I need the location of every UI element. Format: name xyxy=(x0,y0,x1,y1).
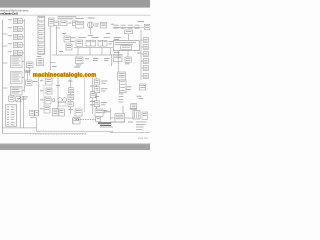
left row 2 wire xyxy=(22,28,24,30)
right row 3 wire xyxy=(141,53,143,55)
bus D tick 3 xyxy=(90,103,94,106)
gauge meter left xyxy=(58,98,62,102)
center drop wire xyxy=(55,26,57,55)
bus E side label 4 xyxy=(101,109,107,112)
left bottom frame wire xyxy=(2,127,36,129)
heater relay xyxy=(46,88,52,94)
svg-text:xxxx xxx: xxxx xxx xyxy=(138,137,149,140)
frame stub wire y46 xyxy=(2,45,7,47)
row2 relay A xyxy=(76,40,83,46)
right edge connector 6 xyxy=(143,74,148,79)
left row 5 label xyxy=(8,50,12,53)
left block 3 text 2 xyxy=(11,88,18,91)
bus B device 3 xyxy=(68,101,73,106)
center bus wire B xyxy=(70,78,72,115)
left row 4 label xyxy=(8,42,12,45)
right edge connector 2 xyxy=(143,45,148,50)
left row 5 wire xyxy=(22,52,24,54)
fuse row text 4a xyxy=(135,24,140,27)
right bus wire xyxy=(140,30,142,80)
CB label xyxy=(68,22,71,25)
blower device label xyxy=(40,98,43,101)
terminal drop wire xyxy=(27,73,29,81)
dotted separator xyxy=(30,133,86,136)
bus E side label 1b xyxy=(101,82,106,85)
bottom-right block xyxy=(115,114,125,122)
center bus wire C xyxy=(84,78,86,113)
gauge base box xyxy=(58,103,66,106)
pin row 1 name xyxy=(11,106,15,109)
bus E mid label xyxy=(95,95,99,98)
left block 2 text 5 xyxy=(11,80,20,83)
mid drop wire x110.4 xyxy=(109,48,111,55)
page bottom rule wire xyxy=(2,132,86,134)
junction strip divider 9 xyxy=(38,53,45,55)
mid lower label xyxy=(74,66,79,69)
header rule xyxy=(0,14,150,16)
relay box A xyxy=(64,36,70,42)
frame stub wire y88 xyxy=(2,87,7,89)
mid text C2 xyxy=(93,59,98,62)
enclosure corner device xyxy=(73,117,80,124)
relay box B label xyxy=(59,50,63,53)
note block row 2 xyxy=(136,123,145,126)
note block row 1 xyxy=(136,121,146,124)
battery ground wire xyxy=(89,28,91,34)
bus B device 2 xyxy=(68,94,74,99)
left row 2 label xyxy=(8,26,12,29)
left row 4 connector xyxy=(18,43,22,48)
battery label xyxy=(88,17,95,20)
junction strip cell text 6 xyxy=(39,37,43,40)
row2 relay B1 xyxy=(86,40,91,46)
junction strip divider 8 xyxy=(38,49,45,51)
mid-right wire xyxy=(127,51,129,57)
row2 side mark xyxy=(108,40,112,43)
row2 label B xyxy=(92,36,99,39)
top-right bus wire xyxy=(113,26,144,28)
bus E device 1 xyxy=(95,79,100,85)
mid-right label xyxy=(114,51,120,54)
starter label 2 xyxy=(95,25,98,28)
junction strip cell text 8 xyxy=(39,46,43,49)
bottom device D xyxy=(95,109,103,117)
junction strip divider 4 xyxy=(38,32,45,34)
bus E side label 3b xyxy=(101,103,106,106)
fuse row text 4b xyxy=(135,27,140,30)
fuse AM2 xyxy=(54,21,59,26)
relay box A label xyxy=(71,36,76,39)
bus D tick 1 xyxy=(90,85,95,88)
pin row 3 number xyxy=(7,111,9,114)
bottom device B xyxy=(59,109,64,116)
junction strip divider 7 xyxy=(38,44,45,46)
pin row 2 number xyxy=(7,108,9,111)
ignition branch wire xyxy=(50,62,56,64)
pin row 5 name xyxy=(11,116,15,119)
frame stub wire y63 xyxy=(2,62,7,64)
left row 1 device xyxy=(13,19,17,24)
right mid label xyxy=(137,95,142,98)
left row 1 wire xyxy=(22,20,24,22)
bus E side label 2b xyxy=(101,90,106,93)
bottom-left connector xyxy=(35,111,39,116)
bottom-left device xyxy=(30,110,34,116)
fuse row text 2b xyxy=(121,27,126,30)
blower motor circle xyxy=(52,99,55,102)
left row 3 device xyxy=(13,35,17,40)
lower-left device label xyxy=(33,80,38,83)
ignition switch block xyxy=(48,18,54,26)
left bus wire xyxy=(23,19,25,92)
bottom-right rule wire xyxy=(110,132,150,134)
left block 1 text 3 xyxy=(11,60,20,63)
bus E device 3 xyxy=(95,101,100,107)
left block 1 text 1 xyxy=(11,56,20,59)
left row 3 connector xyxy=(18,35,22,40)
junction strip cell text 4 xyxy=(39,29,43,32)
tall strip head xyxy=(118,72,126,80)
junction strip J/B xyxy=(38,16,45,54)
bottom-right drop wire xyxy=(122,106,124,118)
mid-right device xyxy=(113,54,122,61)
junction strip cell text 5 xyxy=(39,33,43,36)
mid drop wire x102 xyxy=(101,48,103,55)
svg-text:machinecatalogic.com: machinecatalogic.com xyxy=(33,72,96,78)
tall connector strip xyxy=(119,80,126,93)
right edge connector 5 xyxy=(143,66,148,71)
circuit breaker CB xyxy=(60,21,67,26)
center-left bus wire xyxy=(38,77,40,115)
pin row 2 name xyxy=(11,108,15,111)
pin row 5 number xyxy=(7,116,9,119)
lower-left device xyxy=(26,80,32,85)
row2 relay C1 xyxy=(98,40,103,46)
right row 4 wire xyxy=(141,60,143,62)
lower device label xyxy=(40,107,43,110)
fuse ALT xyxy=(72,21,77,26)
strip side label 2 xyxy=(127,88,131,91)
noise filter block xyxy=(27,62,34,68)
junction block inner fuse xyxy=(121,46,132,50)
pin row 7 number xyxy=(7,121,9,124)
center title text xyxy=(58,15,77,18)
left row 3 wire xyxy=(22,36,24,38)
fuse row text 3b xyxy=(128,27,133,30)
right row 2 wire xyxy=(141,46,143,48)
relay contact arm xyxy=(16,97,21,102)
junction strip cell text 3 xyxy=(39,25,43,28)
relay box A label 2 xyxy=(71,40,75,43)
center title text 2 xyxy=(58,17,74,20)
junction block text 2 xyxy=(115,43,133,46)
fuse row text 2a xyxy=(121,24,126,27)
connector B1 xyxy=(142,112,148,119)
left block 2 text 2 xyxy=(11,74,18,77)
bottom viewer band xyxy=(0,144,150,150)
bottom device A xyxy=(52,109,58,117)
mid drop wire right xyxy=(110,55,112,66)
left row 3 label xyxy=(8,34,12,37)
center bus wire E xyxy=(96,78,98,115)
right row 1 wire xyxy=(141,39,143,41)
lower device xyxy=(44,106,50,113)
left block 2 text 1 xyxy=(11,72,20,75)
pin row 8 name xyxy=(11,123,15,126)
pin row 4 name xyxy=(11,113,15,116)
center bus wire A xyxy=(57,78,59,113)
left text block 1 xyxy=(11,56,23,68)
long drop wire xyxy=(117,51,119,72)
row2 side mark 2 xyxy=(108,43,112,46)
fan relay xyxy=(46,78,52,85)
tall strip text 3 xyxy=(120,86,125,89)
bus D tick 2 xyxy=(90,100,94,103)
bottom note 3 xyxy=(128,121,133,124)
vertical note row 2 xyxy=(119,95,124,98)
mid device A xyxy=(75,57,83,64)
left row 5 device xyxy=(13,51,17,56)
left row 2 device xyxy=(13,27,17,32)
bus E side label 2 xyxy=(101,87,107,90)
bottom device C xyxy=(75,109,82,116)
bus E side label 1 xyxy=(101,80,107,83)
wire label xyxy=(106,32,110,35)
junction strip divider 1 xyxy=(38,19,45,21)
heater relay label xyxy=(40,89,43,92)
row2 relay C2 xyxy=(103,40,107,46)
right lower device xyxy=(131,103,137,109)
right row 5 wire xyxy=(141,67,143,69)
left row 2 connector xyxy=(18,27,22,32)
left block 1 text 2 xyxy=(11,58,18,61)
center stub wire xyxy=(56,27,60,29)
junction block label 2 xyxy=(114,38,119,41)
tall strip text 2 xyxy=(120,83,125,86)
enclosure left wire xyxy=(36,118,38,132)
pin row 7 name xyxy=(11,121,15,124)
vertical note row 1 xyxy=(119,93,124,96)
relay block xyxy=(9,96,14,101)
left block 1 text 5 xyxy=(11,64,20,67)
right mid device xyxy=(139,84,145,90)
mid drop wire x90 xyxy=(89,48,91,55)
alternator label xyxy=(75,17,83,20)
left row 1 connector xyxy=(18,19,22,24)
pin row 3 name xyxy=(11,111,15,114)
gauge meter right xyxy=(63,98,67,102)
code underline wire xyxy=(100,126,113,128)
ignition coil symbol xyxy=(133,111,140,119)
fuse AM1 xyxy=(125,30,133,34)
right edge connector 4 xyxy=(143,59,148,64)
left drop wire A xyxy=(19,96,21,128)
top viewer band xyxy=(0,0,150,8)
dark code text C2 xyxy=(100,125,111,126)
right mid label 2 xyxy=(139,97,143,100)
left row 5 connector xyxy=(18,51,22,56)
junction block text 1 xyxy=(115,41,136,44)
fusible link label F xyxy=(111,23,114,26)
mid device A label 2 xyxy=(76,66,80,69)
bus E side label 4b xyxy=(101,111,106,114)
left drop wire B xyxy=(22,96,24,128)
terminal bar wire xyxy=(24,70,31,72)
vertical note row 3 xyxy=(119,98,124,101)
terminal bar xyxy=(25,71,30,72)
center-left branch wire xyxy=(43,85,45,106)
fan relay label xyxy=(40,79,43,82)
starter label xyxy=(95,23,99,26)
small bottom connector xyxy=(96,117,101,122)
left block 2 wire xyxy=(22,77,24,79)
left block 3 wire xyxy=(22,90,24,92)
bus B lower tick xyxy=(69,108,73,111)
junction strip cell text 9 xyxy=(39,50,43,53)
strip side label xyxy=(127,85,132,88)
bottom note 1 xyxy=(110,121,117,124)
fuse row text 1b xyxy=(114,27,119,30)
bus B tick label xyxy=(68,80,73,83)
tall strip text 4 xyxy=(120,89,125,92)
noise filter wire xyxy=(29,68,31,76)
relay label 2 xyxy=(22,98,27,101)
mid device A label xyxy=(76,64,81,67)
left block 2 text 4 xyxy=(11,78,18,81)
mid text D xyxy=(104,57,110,60)
right edge connector 3 xyxy=(143,52,148,57)
bus D device xyxy=(90,92,95,98)
bus A label xyxy=(56,84,60,87)
mid label xyxy=(62,32,66,35)
left block 1 text 4 xyxy=(11,62,18,65)
junction strip cell text 7 xyxy=(39,42,43,45)
relay contact box xyxy=(16,97,21,102)
left row 1 label xyxy=(8,18,12,21)
fuse row text 1a xyxy=(114,24,119,27)
note block row 3 xyxy=(136,126,144,129)
left block 3 text 1 xyxy=(11,87,20,90)
junction strip divider 2 xyxy=(38,23,45,25)
row2 label C xyxy=(104,36,110,39)
bus E lamp circle xyxy=(96,109,99,112)
enclosure inner wire xyxy=(72,118,74,124)
relay box B xyxy=(66,44,72,50)
strip lower label xyxy=(37,55,41,58)
AM1 drop wire xyxy=(128,34,130,40)
bottom-right bus wire xyxy=(110,117,135,119)
alternator block xyxy=(75,21,83,28)
junction strip divider 6 xyxy=(38,40,45,42)
bottom viewer band edge xyxy=(0,143,150,144)
left row 4 wire xyxy=(22,44,24,46)
enclosure bottom wire xyxy=(37,130,114,132)
right edge block xyxy=(144,24,150,29)
mid text D2 xyxy=(104,59,109,62)
top-right label xyxy=(138,20,144,23)
small label xyxy=(137,52,141,55)
bottom drop wire xyxy=(110,108,112,120)
ignition feed wire xyxy=(49,26,51,70)
bus E side label 3 xyxy=(101,101,107,104)
starter block xyxy=(100,22,106,28)
blower device xyxy=(45,97,51,104)
bottom note 2 xyxy=(118,121,125,124)
bottom device D label xyxy=(104,110,110,113)
right row 6 wire xyxy=(141,75,143,77)
left row 4 device xyxy=(13,43,17,48)
left text block 3 xyxy=(11,87,23,96)
tall strip text 1 xyxy=(120,80,125,83)
junction block label xyxy=(114,36,121,39)
left block 2 text 3 xyxy=(11,76,20,79)
junction strip divider 5 xyxy=(38,36,45,38)
junction strip divider 3 xyxy=(38,28,45,30)
pin row 8 number xyxy=(7,123,9,126)
left block 3 text 3 xyxy=(11,90,20,93)
fuse row text 3a xyxy=(128,24,133,27)
frame stub wire y34 xyxy=(2,33,7,35)
mid-right connector xyxy=(125,57,131,62)
pin row 6 name xyxy=(11,118,15,121)
left text block 2 xyxy=(11,72,23,84)
mid text C xyxy=(93,57,99,60)
center bus wire D xyxy=(92,78,94,115)
pin row 1 number xyxy=(7,106,9,109)
strip lower connector xyxy=(37,59,44,66)
bottom-right label xyxy=(130,107,137,110)
note block row 4 xyxy=(136,128,142,131)
enclosure top wire xyxy=(30,117,37,119)
mid drop wire x78 xyxy=(77,48,79,55)
left block 3 text 4 xyxy=(11,92,18,95)
row2 label A xyxy=(79,36,86,39)
mid label B xyxy=(85,57,89,60)
instrument panel junction block xyxy=(113,41,139,51)
right edge connector 1 xyxy=(143,38,148,43)
relay label xyxy=(22,96,28,99)
left frame wire xyxy=(1,20,3,134)
mid bus wire upper xyxy=(74,47,113,49)
mid-right connector label xyxy=(125,62,130,65)
junction pin table xyxy=(5,105,16,126)
pin row 6 number xyxy=(7,118,9,121)
junction strip cell text 1 xyxy=(39,16,43,19)
vertical note row 4 xyxy=(119,101,124,104)
bus B device 1 xyxy=(68,88,73,93)
left block 1 wire xyxy=(22,61,24,63)
bus E device 2 xyxy=(95,87,100,93)
ground label xyxy=(88,34,93,37)
branch label xyxy=(52,65,57,68)
dark code text C1 xyxy=(98,122,111,123)
junction strip cell text 2 xyxy=(39,21,43,24)
mid bus wire lower xyxy=(52,54,113,56)
pin row 4 number xyxy=(7,113,9,116)
battery symbol xyxy=(87,22,93,28)
row2 relay B2 xyxy=(91,40,96,46)
hatch dashes row xyxy=(76,118,97,121)
